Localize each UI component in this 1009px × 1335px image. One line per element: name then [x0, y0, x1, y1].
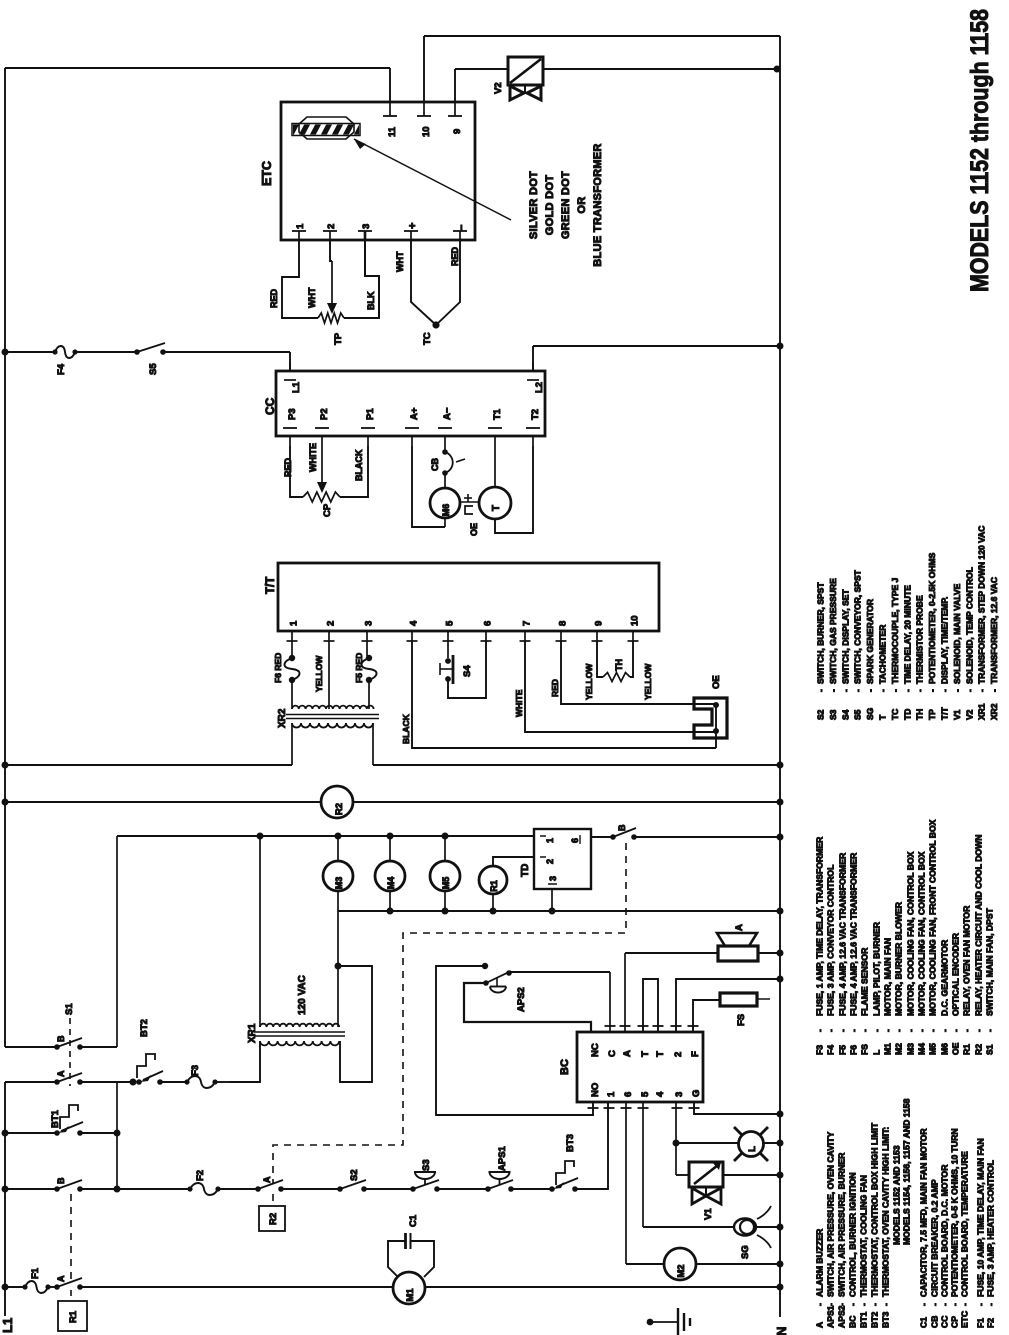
svg-text:WHITE: WHITE — [308, 443, 318, 472]
svg-text:-: - — [894, 1029, 904, 1032]
svg-text:-: - — [826, 1029, 836, 1032]
node N label — [774, 1327, 789, 1335]
tachometer T — [479, 487, 511, 519]
legend SG — [865, 599, 875, 720]
wire ETC pin+ to TC — [411, 240, 436, 325]
pin A+ of CC — [405, 407, 420, 446]
svg-text:RELAY, HEATER CIRCUIT AND COOL: RELAY, HEATER CIRCUIT AND COOL DOWN — [974, 835, 984, 1016]
pin 1 of ETC — [292, 223, 306, 240]
thermistor TH — [603, 659, 630, 682]
svg-text:-: - — [878, 689, 888, 692]
legend MODELS 1152 AND 1153 — [892, 1145, 902, 1245]
relay label box R2 — [259, 1206, 285, 1231]
wire F2 to contact A — [218, 1188, 258, 1190]
legend MODELS 1154 1156 1157 AND 1158 — [902, 1098, 912, 1245]
note GREEN DOT — [560, 171, 572, 239]
svg-text:MODELS 1154, 1156, 1157 AND 11: MODELS 1154, 1156, 1157 AND 1158 — [902, 1098, 912, 1245]
svg-text:-: - — [860, 1029, 870, 1032]
switch S3 — [410, 1159, 440, 1191]
transformer XR2 secondary — [292, 723, 373, 728]
svg-text:T: T — [640, 1051, 651, 1057]
thermostat BT3 — [549, 1134, 578, 1192]
wire S1-B line — [5, 1046, 117, 1048]
fuse F4 — [52, 346, 77, 375]
label BC — [559, 1059, 571, 1075]
svg-text:THERMOSTAT, COOLING FAN: THERMOSTAT, COOLING FAN — [859, 1175, 869, 1297]
svg-text:6: 6 — [483, 621, 494, 626]
svg-text:A−: A− — [442, 407, 453, 420]
pin 2 of TD — [540, 857, 555, 864]
pin - of ETC — [453, 225, 468, 240]
thermostat BT2 — [130, 1019, 164, 1085]
svg-text:F: F — [690, 1051, 701, 1057]
wire 911 rail — [338, 908, 784, 915]
switch APS1 — [485, 1145, 514, 1191]
legend F5 — [838, 852, 848, 1055]
legend V1 — [952, 583, 962, 720]
svg-text:TD: TD — [902, 709, 912, 720]
dashed linkage relay R1 — [70, 1194, 72, 1281]
svg-text:R1: R1 — [489, 880, 499, 892]
svg-text:7: 7 — [522, 621, 533, 626]
svg-text:TACHOMETER: TACHOMETER — [878, 625, 888, 684]
svg-text:-: - — [815, 1303, 825, 1306]
svg-text:T/T: T/T — [265, 577, 277, 594]
svg-text:B: B — [56, 1177, 66, 1184]
svg-text:YELLOW: YELLOW — [584, 663, 594, 700]
svg-text:2: 2 — [326, 224, 337, 229]
legend M6 — [940, 939, 950, 1055]
wire S1-A line — [5, 1081, 133, 1083]
svg-text:10: 10 — [630, 615, 641, 626]
svg-text:FS: FS — [860, 1044, 870, 1055]
svg-text:-: - — [964, 689, 974, 692]
svg-text:SG: SG — [740, 1245, 751, 1259]
svg-text:F5: F5 — [838, 1045, 848, 1055]
svg-text:XR2: XR2 — [277, 708, 288, 728]
node junction left bus F4 line — [2, 349, 9, 356]
pin 4 bottom of BC — [655, 1091, 666, 1097]
legend R2 — [974, 835, 984, 1055]
legend A — [815, 1228, 825, 1328]
wire to S2 — [281, 1188, 340, 1190]
svg-text:F5 RED: F5 RED — [354, 653, 364, 683]
wire BC pin 6 to M2 — [626, 1102, 664, 1264]
svg-text:SPARK GENERATOR: SPARK GENERATOR — [865, 599, 875, 684]
wire F1 line — [2, 1284, 58, 1291]
pin F top of BC — [688, 1026, 702, 1057]
legend TD — [902, 585, 912, 720]
legend S1 — [985, 907, 995, 1055]
svg-text:-: - — [828, 689, 838, 692]
svg-text:-: - — [915, 689, 925, 692]
contact B of switch S1 — [54, 1035, 83, 1050]
legend XR1 — [977, 526, 987, 720]
svg-text:-: - — [917, 1029, 927, 1032]
pin 6 bottom of BC — [621, 1092, 635, 1108]
contact A of relay R2 line — [255, 1176, 284, 1192]
svg-text:CP: CP — [322, 503, 333, 517]
wire ETC pin- to TC — [436, 240, 460, 325]
svg-text:R2: R2 — [974, 1044, 984, 1055]
svg-text:CONTROL BOARD, D.C. MOTOR: CONTROL BOARD, D.C. MOTOR — [940, 1164, 950, 1297]
svg-text:L1: L1 — [0, 1318, 15, 1333]
svg-text:S1: S1 — [64, 1003, 75, 1015]
svg-text:T1: T1 — [492, 408, 503, 420]
svg-text:SWITCH, DISPLAY, SET: SWITCH, DISPLAY, SET — [840, 589, 850, 684]
svg-text:TC: TC — [422, 332, 433, 345]
svg-text:WHT: WHT — [395, 251, 405, 272]
legend APS1 — [826, 1132, 836, 1328]
wire T/T pin9 — [584, 641, 603, 700]
svg-text:-: - — [902, 689, 912, 692]
svg-text:F1: F1 — [976, 1318, 986, 1328]
svg-text:4: 4 — [655, 1091, 666, 1097]
wire BC pin G to bus — [694, 1102, 784, 1118]
fuse F5 — [354, 653, 377, 683]
svg-text:T: T — [878, 714, 888, 720]
svg-text:2: 2 — [326, 621, 337, 626]
note GOLD DOT — [544, 175, 556, 235]
label XR1 — [247, 1023, 258, 1043]
svg-text:FUSE, 3 AMP, CONVEYOR CONTROL: FUSE, 3 AMP, CONVEYOR CONTROL — [826, 865, 836, 1016]
svg-text:A: A — [56, 1070, 66, 1077]
wire F3 to XR1 — [215, 1081, 230, 1083]
wire CC P3 to CP — [290, 446, 303, 497]
svg-text:A: A — [815, 1322, 825, 1328]
svg-text:N: N — [774, 1327, 789, 1335]
motor M6 — [430, 488, 460, 518]
svg-text:CIRCUIT BREAKER, 0.2 AMP: CIRCUIT BREAKER, 0.2 AMP — [930, 1179, 940, 1297]
svg-text:-: - — [865, 689, 875, 692]
svg-text:MOTOR, COOLING FAN, CONTROL BO: MOTOR, COOLING FAN, CONTROL BOX — [906, 851, 916, 1016]
legend XR2 — [989, 577, 999, 720]
wire T/T pin8 RED — [550, 641, 716, 704]
label RED TC — [450, 246, 460, 266]
label WHITE CP — [308, 443, 318, 472]
wire FS to bus — [757, 998, 770, 1000]
svg-text:3: 3 — [364, 621, 375, 626]
svg-text:-: - — [927, 689, 937, 692]
svg-text:-: - — [837, 1303, 847, 1306]
pin L2 of CC — [527, 362, 545, 393]
svg-text:OR: OR — [576, 196, 588, 213]
svg-text:-: - — [940, 1303, 950, 1306]
legend TC — [890, 577, 900, 720]
svg-text:-: - — [928, 1029, 938, 1032]
pin 10 of T/T — [628, 615, 641, 641]
circuit breaker CB — [430, 449, 465, 476]
svg-text:TP: TP — [927, 709, 937, 720]
svg-text:CC: CC — [940, 1316, 950, 1328]
pin 1 of TD — [540, 836, 555, 843]
wire ETC pin1 to TP left — [282, 240, 318, 318]
svg-text:SWITCH, BURNER, SPST: SWITCH, BURNER, SPST — [816, 582, 826, 684]
motor M2 — [664, 1248, 696, 1280]
pin 3 of T/T — [362, 621, 375, 641]
svg-text:OPTICAL ENCODER: OPTICAL ENCODER — [951, 932, 961, 1016]
legend CB — [930, 1179, 940, 1328]
svg-text:A: A — [56, 1275, 66, 1282]
pin NO bottom of BC — [588, 1083, 602, 1108]
svg-text:L: L — [747, 1146, 758, 1152]
legend BC — [848, 1172, 858, 1328]
pin NC top of BC — [590, 1043, 601, 1057]
wire CC P2 to CP wiper — [317, 446, 327, 493]
svg-text:SWITCH, MAIN FAN, DPST: SWITCH, MAIN FAN, DPST — [985, 907, 995, 1016]
svg-text:M5: M5 — [441, 877, 451, 890]
svg-text:ETC: ETC — [960, 1311, 970, 1328]
svg-text:S1: S1 — [985, 1044, 995, 1055]
wire ETC pin11 stem — [389, 68, 391, 102]
svg-text:M4: M4 — [917, 1043, 927, 1055]
switch S5 — [134, 343, 166, 375]
pin 2 top of BC — [671, 1026, 685, 1057]
wire T/T pin4 BLACK — [401, 641, 716, 748]
wire BC pin A to buzzer — [625, 953, 718, 1032]
legend F4 — [826, 865, 836, 1055]
svg-text:M2: M2 — [676, 1264, 687, 1277]
svg-text:APS1: APS1 — [497, 1145, 508, 1171]
svg-text:M6: M6 — [441, 504, 451, 517]
svg-text:6: 6 — [570, 838, 580, 843]
wire pin10 top rail — [424, 35, 780, 37]
transformer XR1 secondary — [260, 1024, 339, 1027]
wire BT3 to BC pin1 — [575, 1102, 608, 1189]
pin T2 of CC — [526, 409, 541, 446]
wire F4 line — [5, 352, 290, 371]
svg-text:F4: F4 — [56, 363, 67, 375]
svg-text:-: - — [870, 1303, 880, 1306]
burner control BC box — [577, 1032, 703, 1102]
label RED CP — [283, 457, 293, 477]
wire V2 to bus — [543, 66, 781, 73]
svg-text:-: - — [930, 1303, 940, 1306]
pin A- of CC — [438, 407, 453, 446]
pin 6 of T/T — [481, 621, 494, 641]
legend T/T — [940, 597, 950, 720]
wire S1-B riser — [116, 836, 118, 1047]
spark generator SG — [734, 1206, 771, 1259]
legend S2 — [816, 582, 826, 720]
contact A of relay R1 — [54, 1275, 83, 1290]
legend F1 — [976, 1138, 986, 1328]
svg-text:-: - — [906, 1029, 916, 1032]
pin 5 bottom of BC — [638, 1091, 652, 1108]
label CC — [263, 397, 277, 415]
svg-text:THERMOSTAT, CONTROL BOX HIGH L: THERMOSTAT, CONTROL BOX HIGH LIMIT — [870, 1122, 880, 1297]
wire ETC pin9 riser — [455, 69, 508, 102]
optical encoder OE connector — [694, 675, 727, 748]
pin 6 of TD — [570, 835, 580, 844]
svg-text:-: - — [986, 1303, 996, 1306]
svg-text:R1: R1 — [962, 1044, 972, 1055]
wire BC pin 3 down — [673, 1102, 680, 1175]
pin T top of BC — [653, 1026, 667, 1057]
wire XR1 secondary left riser — [259, 836, 261, 1027]
svg-text:TH: TH — [614, 659, 624, 671]
pin 7 of T/T — [520, 621, 533, 641]
pin 1 bottom of BC — [604, 1091, 618, 1108]
dashed linkage R1 contact A to coil box — [70, 1290, 72, 1301]
svg-text:F3: F3 — [190, 1065, 201, 1076]
pin 10 of ETC — [417, 102, 432, 137]
svg-text:F1: F1 — [30, 1267, 41, 1279]
note OR — [576, 196, 588, 213]
legend M2 — [894, 901, 904, 1055]
svg-text:RED: RED — [450, 246, 460, 266]
svg-text:-: - — [816, 689, 826, 692]
svg-text:G: G — [691, 1090, 702, 1097]
svg-text:OE: OE — [711, 675, 722, 689]
wire APS2 lower contact to BC pin NC — [464, 983, 591, 1032]
svg-text:S3: S3 — [828, 709, 838, 720]
control board ETC box — [281, 102, 475, 240]
legend OE — [951, 932, 961, 1055]
wire BC pin NO to APS2 terminal — [436, 966, 593, 1115]
svg-text:M3: M3 — [906, 1043, 916, 1055]
wire V1 to bus — [722, 1172, 784, 1179]
svg-text:S3: S3 — [421, 1159, 432, 1171]
svg-text:-: - — [989, 689, 999, 692]
wire T/T pin3 to F5 — [367, 641, 369, 657]
legend BT3 — [881, 1127, 891, 1328]
svg-text:L2: L2 — [534, 382, 545, 393]
fuse F6 — [273, 653, 300, 683]
legend S3 — [828, 578, 838, 720]
svg-text:A: A — [622, 1050, 633, 1057]
label RED TP — [269, 288, 279, 308]
svg-text:-: - — [977, 689, 987, 692]
wire BT1 vertical — [114, 1082, 121, 1193]
svg-text:F6: F6 — [849, 1045, 859, 1055]
svg-text:APS2: APS2 — [516, 987, 527, 1012]
svg-text:MOTOR, MAIN FAN: MOTOR, MAIN FAN — [883, 938, 893, 1016]
svg-text:SWITCH, AIR PRESSURE, OVEN CAV: SWITCH, AIR PRESSURE, OVEN CAVITY — [826, 1132, 836, 1297]
pin 9 of ETC — [448, 102, 463, 134]
relay coil R2 — [321, 786, 353, 818]
svg-text:SOLENOID, MAIN VALVE: SOLENOID, MAIN VALVE — [952, 583, 962, 684]
svg-text:CC: CC — [263, 397, 277, 415]
pin T top of BC — [638, 1026, 652, 1057]
wire R1-B line — [2, 1186, 191, 1193]
fuse F1 — [22, 1267, 50, 1293]
wire 765 rail left segment — [2, 762, 784, 769]
svg-text:3: 3 — [674, 1092, 685, 1097]
wire SG to bus — [755, 1224, 784, 1231]
svg-text:1: 1 — [295, 223, 306, 229]
wire top rail to ETC pin 11 — [5, 67, 390, 69]
svg-text:BLACK: BLACK — [401, 713, 411, 744]
svg-text:P3: P3 — [287, 408, 298, 420]
svg-text:XR1: XR1 — [977, 703, 987, 720]
svg-text:TC: TC — [890, 709, 900, 720]
wire XR1 secondary right riser — [335, 911, 342, 1027]
pin A top of BC — [620, 1026, 634, 1057]
svg-text:8: 8 — [558, 621, 569, 626]
svg-text:M2: M2 — [894, 1043, 904, 1055]
wire to APS1 — [437, 1188, 488, 1190]
legend TH — [915, 595, 925, 720]
pin 9 of T/T — [592, 621, 605, 641]
motor M1 — [393, 1272, 425, 1304]
svg-text:R2: R2 — [268, 1213, 279, 1225]
svg-text:C1: C1 — [408, 1214, 419, 1227]
svg-text:T2: T2 — [530, 409, 541, 420]
svg-text:M5: M5 — [928, 1043, 938, 1055]
svg-text:FUSE, 4 AMP, 12.6 VAC TRANSFOR: FUSE, 4 AMP, 12.6 VAC TRANSFORMER — [838, 852, 848, 1016]
svg-text:BC: BC — [559, 1059, 571, 1075]
wire L1 left bus lower — [4, 1082, 6, 1316]
wire M6 to A+ node — [444, 518, 446, 527]
svg-text:-: - — [919, 1303, 929, 1306]
wire BC pin 2 to bus — [676, 976, 784, 1033]
dashed linkage R2 contact A to coil box — [272, 1194, 274, 1206]
svg-text:TP: TP — [333, 332, 344, 345]
wire XR2 left to rail — [291, 723, 293, 765]
thermostat BT1 — [50, 1105, 83, 1136]
legend F3 — [815, 836, 825, 1055]
svg-text:3: 3 — [548, 876, 558, 881]
wire lamp line — [676, 1142, 738, 1144]
transformer XR1 primary — [260, 1041, 339, 1045]
svg-text:9: 9 — [452, 129, 463, 134]
svg-text:-: - — [951, 1029, 961, 1032]
transformer XR2 primary — [292, 706, 374, 709]
svg-text:-: - — [985, 1029, 995, 1032]
wire to S3 — [364, 1188, 413, 1190]
wire right bus N — [779, 36, 781, 1317]
svg-text:FUSE, 4 AMP, 12.6 VAC TRANSFOR: FUSE, 4 AMP, 12.6 VAC TRANSFORMER — [849, 852, 859, 1016]
legend TP — [927, 552, 937, 720]
svg-text:3: 3 — [361, 224, 372, 229]
wire T/T pin7 WHITE — [514, 641, 716, 732]
legend M1 — [883, 938, 893, 1055]
svg-text:4: 4 — [409, 620, 420, 626]
pin + of ETC — [404, 223, 419, 240]
motor M3 — [323, 836, 353, 911]
svg-text:T: T — [655, 1051, 666, 1057]
svg-text:XR2: XR2 — [989, 703, 999, 720]
svg-text:RED: RED — [283, 457, 293, 477]
svg-text:BT1: BT1 — [50, 1109, 61, 1128]
svg-text:BLUE TRANSFORMER: BLUE TRANSFORMER — [592, 143, 604, 266]
svg-text:CP: CP — [950, 1316, 960, 1328]
transformer XR2 core — [286, 715, 379, 719]
alarm buzzer A — [717, 924, 758, 961]
svg-text:P1: P1 — [365, 408, 376, 420]
wire ETC pin10 riser — [423, 36, 425, 102]
svg-text:M1: M1 — [883, 1043, 893, 1055]
legend V2 — [964, 567, 974, 720]
svg-text:SWITCH, CONVEYOR, SPST: SWITCH, CONVEYOR, SPST — [853, 569, 863, 684]
svg-text:RED: RED — [550, 679, 560, 697]
node L1 label — [0, 1318, 15, 1333]
svg-text:NO: NO — [590, 1083, 601, 1097]
wire XR1 primary loop — [338, 966, 372, 1082]
thermocouple TC junction — [422, 321, 440, 345]
pin 11 of ETC — [383, 102, 398, 137]
dashed linkage switch S1 — [64, 1003, 75, 1086]
contact B of relay R2 — [610, 824, 637, 840]
legend FS — [860, 947, 870, 1055]
svg-text:ETC: ETC — [260, 161, 274, 186]
potentiometer CP — [303, 492, 340, 517]
svg-text:LAMP, PILOT, BURNER: LAMP, PILOT, BURNER — [872, 921, 882, 1016]
svg-text:-: - — [940, 1029, 950, 1032]
svg-text:F2: F2 — [195, 1170, 206, 1181]
wire CC L2 to bus — [533, 343, 784, 372]
